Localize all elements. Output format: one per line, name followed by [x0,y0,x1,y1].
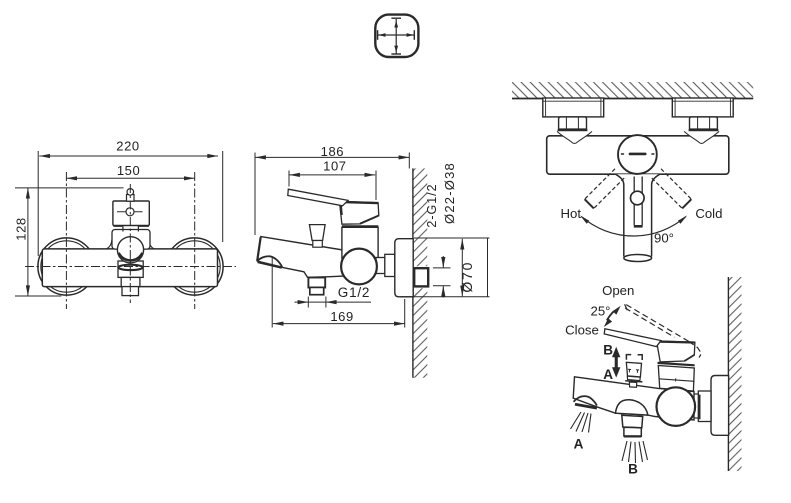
svg-text:A: A [603,367,613,382]
knob mid rect br [627,376,640,380]
dimension D70 arrows [400,238,490,297]
svg-text:Hot: Hot [561,206,582,221]
dimension 220 [38,151,223,256]
supply pipe square on wall [414,268,428,286]
tick top [391,17,401,19]
escutcheon side br [711,376,729,436]
dimension 107 [289,171,376,201]
washer left dark [558,129,588,131]
nut right [690,117,718,129]
svg-text:B: B [603,343,613,358]
upper column side [342,227,378,258]
svg-text:Ø22-Ø38: Ø22-Ø38 [442,162,457,224]
spray B lines [622,441,648,463]
washer right dark [689,129,719,131]
handle block front [113,201,149,226]
cone left [557,131,592,143]
dimension G1/2 [295,297,372,308]
svg-text:2-G1/2: 2-G1/2 [425,183,439,227]
mixer ball front [117,237,143,263]
double arrow B A [612,347,620,378]
spout beak lip [258,262,282,268]
escutcheon right front outer [166,238,223,295]
cap top thick edge [343,202,378,203]
tick bottom [391,53,401,55]
handle pin circle [127,189,134,196]
centerline left escutcheon [65,172,67,309]
cross vertical line [395,19,397,54]
shower outlet box side [308,278,325,288]
column joint line br [659,378,695,381]
tilted body br [573,377,694,420]
svg-text:186: 186 [321,144,345,159]
block flange dark bars [113,225,148,227]
column br [658,366,694,392]
arrow down [394,46,398,53]
diverter knob neck side [313,241,323,248]
cap left dark edge [340,205,343,215]
handle neck front [123,226,138,232]
cap slant thick edge [360,216,379,224]
brand dashes [621,153,655,155]
spray A lines [571,412,592,433]
svg-text:Cold: Cold [695,206,722,221]
wall hatch middle lower [413,288,427,378]
dimension 150 [66,176,194,180]
valve circle side [341,249,377,285]
handle pin front [127,195,135,202]
handle inner bottom thick [634,225,643,228]
arrow right [407,33,414,37]
aerator box2 front [121,277,140,286]
spout beak side [257,256,282,267]
spout rim ellipse front [118,265,142,270]
cap top thick br [660,341,695,344]
dome br [616,400,648,415]
body bar top right view [547,136,729,174]
shoulder fillets [107,240,113,249]
nut step br [692,394,698,418]
nut left facets [566,117,578,129]
arrow up [394,21,398,28]
nut dark edge br [698,395,701,420]
spout body wedge side [257,237,346,278]
centerline right escutcheon [194,172,196,309]
screw circle [126,208,134,216]
25 deg double arrow [607,311,614,320]
squircle outline [375,15,418,57]
outlet bottom thick [624,435,641,437]
cap br [657,341,695,362]
wall hatch bottom right [728,277,741,471]
beak br [574,396,597,405]
lever solid br [604,329,661,347]
svg-text:107: 107 [323,159,347,174]
cap slant thick br [685,355,695,361]
centerline horizontal [25,266,236,268]
valve circle br [657,387,696,426]
lever side [288,189,348,206]
screw line [117,211,143,213]
nut right facets [698,117,710,129]
outlet upper br [622,415,643,428]
spout tube [616,174,660,256]
svg-text:B: B [628,462,638,477]
svg-text:169: 169 [330,309,354,324]
dashed lever left [585,169,625,209]
svg-text:90°: 90° [654,231,674,246]
escutcheon left front inner [41,241,92,292]
wall hatch middle upper [413,168,427,266]
cross horizontal line [378,34,414,36]
shower outlet lower box side [310,287,324,294]
svg-text:128: 128 [14,217,29,241]
connector nut side [385,254,395,276]
dimension 169 [272,257,405,328]
dimension D22-D38 arrows [433,256,451,298]
knob flange br [625,381,642,382]
dimension 128 [15,188,124,296]
aerator box3 front [122,287,139,296]
cap bottom thick line [342,225,378,227]
knob T marks [628,369,639,373]
svg-text:150: 150 [117,163,141,178]
spout tip edge thick [257,237,261,261]
outlet lower br [624,427,641,436]
ball thick lower arc [119,253,143,261]
escutcheon right inner edges [672,98,733,117]
arc arrow right [678,215,687,223]
escutcheon left inner edges [543,98,604,117]
dashed lever right [652,169,692,209]
arc 90 degrees [581,217,685,236]
cartridge cap side [340,201,379,224]
beak lip br [575,404,597,408]
aerator box1 front [118,261,143,277]
svg-text:Close: Close [565,323,599,338]
tick right [413,30,415,40]
svg-text:Open: Open [602,283,634,298]
escutcheon side [395,239,413,297]
svg-text:220: 220 [116,139,140,154]
arrow left [379,33,386,37]
ceiling hatch [512,82,753,99]
nut left [559,117,587,129]
tick left [377,30,379,40]
svg-text:25°: 25° [591,304,611,319]
escutcheon right top view [672,98,733,117]
wall face line middle [412,168,414,377]
handle hole circle [631,191,645,205]
escutcheon right front inner [169,241,220,292]
handle inner shaft lines [634,177,642,226]
escutcheon left front outer [38,238,95,295]
cone right [684,131,719,143]
dimension 186 [255,153,409,236]
brand text smudge [629,153,647,156]
spout tube mouth ellipse [624,255,652,262]
nut side br [698,391,711,422]
knob br [626,362,641,377]
wall face line bottom right [727,277,729,471]
center column front [112,230,150,250]
dashed corner brackets knob up position [626,355,642,360]
ceiling line [512,98,753,100]
escutcheon left top view [543,98,604,117]
connector nut small side [376,258,385,274]
knob neck br [629,382,636,387]
svg-text:G1/2: G1/2 [338,285,370,300]
svg-text:A: A [574,437,584,452]
centerline middle [129,184,131,303]
body bar front [42,249,217,287]
arc arrow left [580,215,589,223]
diverter knob side [309,225,325,241]
flare white mask [616,174,660,185]
cap below thick line br [658,363,695,365]
central circle knob [618,135,657,174]
dashed open lever br [625,304,702,357]
